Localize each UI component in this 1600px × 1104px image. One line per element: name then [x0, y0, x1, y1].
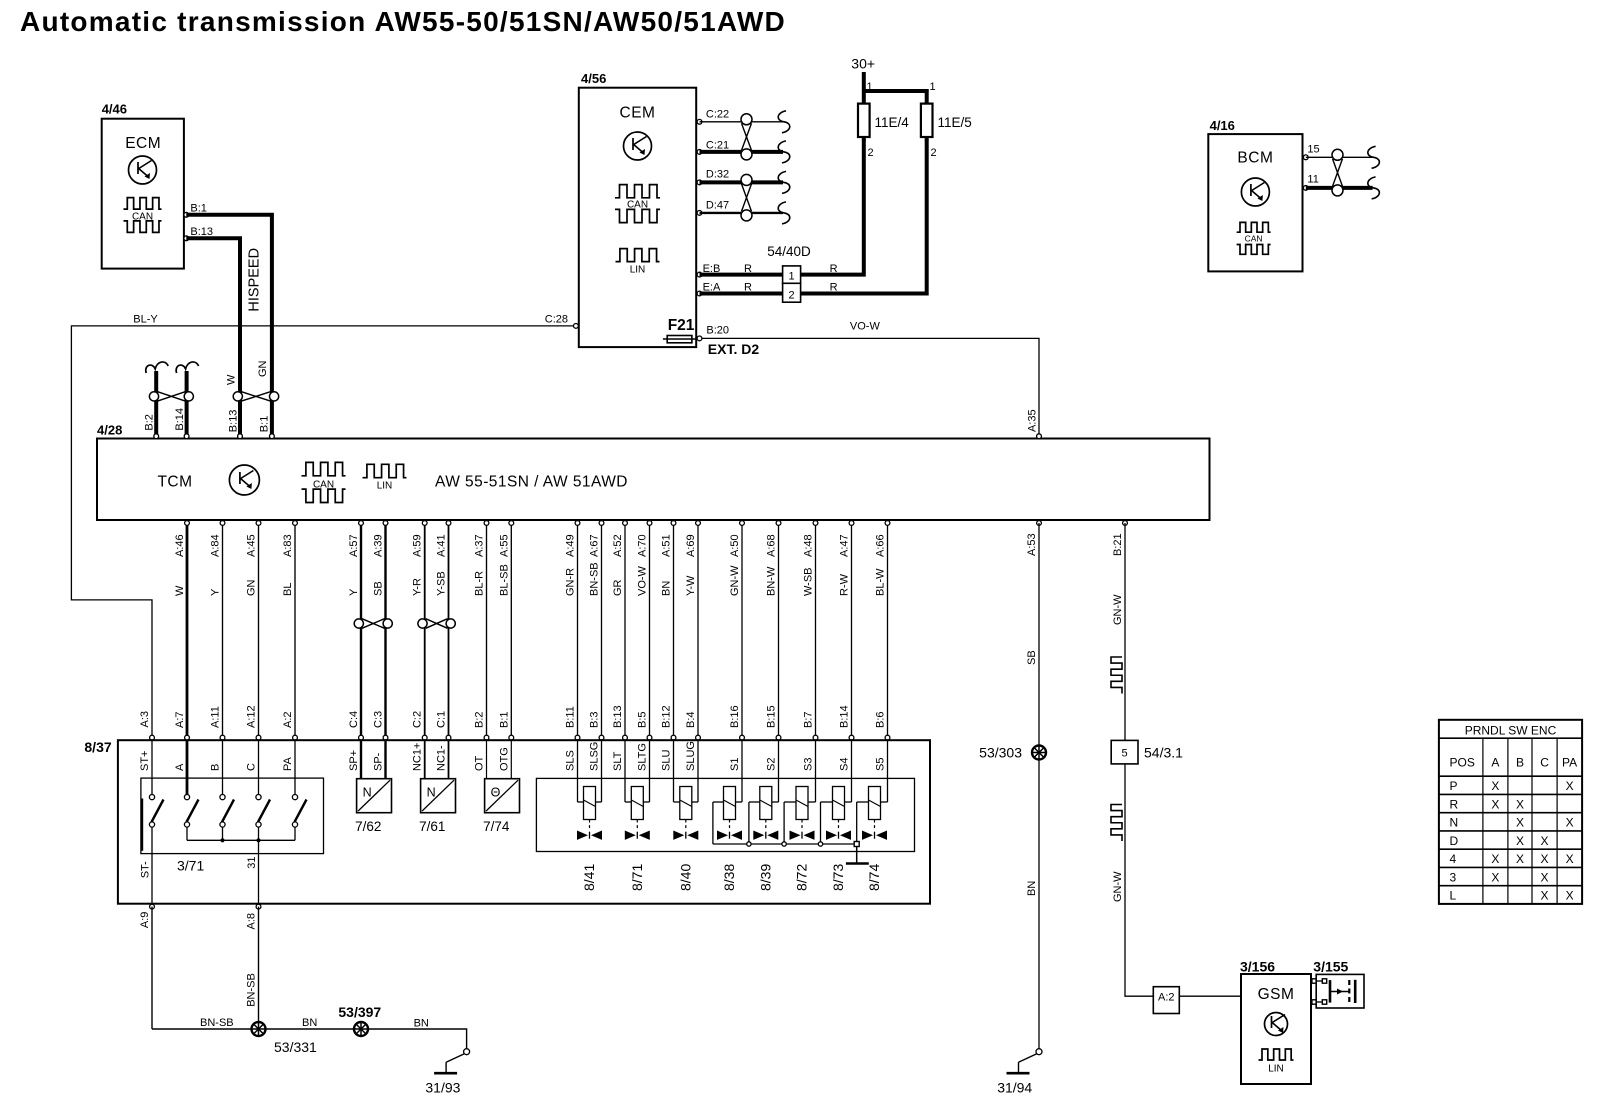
svg-text:54/40D: 54/40D [767, 244, 811, 259]
label GN-W [1112, 594, 1124, 625]
svg-text:8/38: 8/38 [721, 864, 737, 891]
speed sensor 7/62 [355, 779, 391, 834]
svg-text:8/71: 8/71 [629, 864, 645, 891]
svg-text:BL: BL [282, 583, 294, 596]
svg-text:C:1: C:1 [436, 711, 448, 728]
svg-text:W-SB: W-SB [803, 567, 815, 596]
svg-text:X: X [1541, 834, 1549, 848]
svg-text:53/331: 53/331 [274, 1039, 317, 1055]
wire GN-W TCM A:50 to 8/37 B:16 (S1) [729, 521, 744, 771]
svg-text:NC1-: NC1- [436, 745, 448, 771]
pin TCM B:13 [238, 434, 243, 439]
label BN [414, 1018, 429, 1030]
svg-text:N: N [1450, 816, 1459, 830]
wire Y-W TCM A:69 to 8/37 B:4 (SLUG) [685, 521, 700, 771]
svg-text:P: P [1450, 779, 1458, 793]
ground 31/93 [425, 1049, 469, 1096]
pin B:20 of CEM [697, 325, 729, 341]
label B:13 at TCM [228, 410, 240, 433]
wire SB TCM A:39 to 8/37 C:3 (SP-) [373, 521, 388, 771]
svg-text:30+: 30+ [851, 55, 875, 71]
svg-text:11E/4: 11E/4 [875, 115, 910, 130]
svg-text:B:6: B:6 [875, 711, 887, 728]
shift solenoid 8/73 [821, 740, 852, 891]
svg-text:X: X [1491, 852, 1499, 866]
svg-text:B:14: B:14 [174, 408, 186, 431]
svg-text:D:47: D:47 [706, 199, 729, 211]
svg-text:1: 1 [930, 81, 936, 93]
svg-text:SB: SB [1026, 650, 1038, 665]
svg-text:B:12: B:12 [661, 705, 673, 728]
wire BL-R TCM A:37 to 8/37 B:2 (OT) [474, 521, 489, 771]
svg-text:B:13: B:13 [190, 226, 213, 238]
PRNDL switch 3/71 [140, 740, 324, 906]
svg-text:4/46: 4/46 [102, 102, 127, 117]
svg-text:C: C [1540, 756, 1549, 770]
wire VO-W TCM A:70 to 8/37 B:5 (SLTG) [637, 521, 652, 771]
pin TCM A:35 [1037, 434, 1042, 439]
svg-text:POS: POS [1450, 756, 1475, 770]
svg-text:A:83: A:83 [282, 534, 294, 557]
solenoid block box [536, 778, 914, 851]
pin D:32 of CEM [697, 169, 729, 185]
svg-text:SB: SB [373, 581, 385, 596]
svg-text:LIN: LIN [1268, 1064, 1284, 1075]
oil temperature sensor 7/74 [483, 779, 519, 834]
wire OTG into 7/74 [510, 740, 512, 779]
svg-text:S4: S4 [839, 758, 851, 771]
svg-text:BN: BN [414, 1018, 429, 1030]
svg-text:GR: GR [612, 579, 624, 596]
svg-text:B:2: B:2 [474, 711, 486, 728]
svg-text:A:7: A:7 [174, 711, 186, 728]
svg-text:Y: Y [348, 588, 360, 596]
svg-text:A:55: A:55 [498, 534, 510, 557]
svg-text:8/73: 8/73 [830, 864, 846, 891]
label GN-W [1112, 871, 1124, 902]
wire GN-R TCM A:49 to 8/37 B:11 (SLS) [565, 521, 580, 771]
svg-text:SP-: SP- [373, 752, 385, 771]
svg-text:PA: PA [1562, 756, 1577, 770]
svg-text:A:12: A:12 [246, 705, 258, 728]
svg-text:A:70: A:70 [637, 534, 649, 557]
wire stub TCM B:14 [176, 362, 198, 436]
svg-text:B:5: B:5 [637, 711, 649, 728]
wire BN-W TCM A:68 to 8/37 B:15 (S2) [766, 521, 781, 771]
wire from CEM D:47 [700, 202, 790, 224]
twisted pair symbol D:32/D:47 [741, 174, 752, 221]
svg-text:11E/5: 11E/5 [938, 115, 972, 130]
PRNDL switch encoding table [1439, 720, 1582, 904]
connector A:2 [1153, 987, 1179, 1014]
pin B:13 of ECM [184, 226, 213, 241]
splice 53/397 [338, 1004, 381, 1036]
svg-text:S3: S3 [803, 758, 815, 771]
svg-text:Y-W: Y-W [685, 575, 697, 596]
svg-text:C: C [246, 763, 258, 771]
svg-text:X: X [1516, 852, 1524, 866]
wire NC1- into 7/61 [448, 740, 450, 779]
svg-text:X: X [1541, 852, 1549, 866]
title [20, 6, 786, 37]
label B:1 at TCM [259, 416, 271, 433]
svg-text:EXT. D2: EXT. D2 [708, 341, 760, 357]
wire from CEM C:22 [700, 111, 790, 133]
svg-text:8/37: 8/37 [84, 739, 111, 755]
svg-text:A:41: A:41 [436, 534, 448, 557]
pin B:1 of ECM [184, 203, 207, 218]
wire R CEM E:A to fuse 11E/5 [700, 137, 927, 294]
svg-text:2: 2 [789, 290, 795, 302]
svg-text:BN: BN [661, 581, 673, 596]
svg-text:B:13: B:13 [612, 705, 624, 728]
svg-text:NC1+: NC1+ [412, 743, 424, 771]
label BN-SB [200, 1017, 234, 1029]
svg-text:F21: F21 [668, 317, 695, 334]
label W [226, 374, 238, 385]
svg-text:ECM: ECM [125, 135, 161, 152]
svg-text:X: X [1516, 797, 1524, 811]
label EXT. D2 [708, 341, 760, 357]
wire BN-SB 8/37 A:8 down [246, 907, 259, 1029]
wire GN ECM B:1 to TCM B:1 (HISPEED) [186, 215, 272, 436]
pin C:22 of CEM [697, 109, 729, 125]
svg-text:8/40: 8/40 [677, 864, 693, 891]
svg-text:B:14: B:14 [839, 705, 851, 728]
svg-text:8/72: 8/72 [794, 864, 810, 891]
svg-text:L: L [1450, 889, 1457, 903]
pin TCM B:14 [184, 434, 189, 439]
wire BL TCM A:83 to 8/37 A:2 (PA) [282, 521, 297, 771]
svg-text:15: 15 [1307, 143, 1319, 155]
pin TCM B:1 [270, 434, 275, 439]
pin TCM B:21 [1112, 521, 1127, 556]
svg-text:A:46: A:46 [174, 534, 186, 557]
svg-text:Y-R: Y-R [412, 578, 424, 596]
fuse 11E/4 [858, 104, 909, 137]
wire GN TCM A:45 to 8/37 A:12 (C) [246, 521, 261, 771]
svg-text:8/39: 8/39 [757, 864, 773, 891]
svg-text:4: 4 [1450, 852, 1457, 866]
svg-text:1: 1 [867, 81, 873, 93]
svg-text:4/16: 4/16 [1210, 118, 1235, 133]
connector 54/3.1 [1111, 740, 1183, 764]
svg-text:S5: S5 [875, 758, 887, 771]
wire W-SB TCM A:48 to 8/37 B:7 (S3) [803, 521, 818, 771]
label BL-Y [133, 314, 158, 326]
svg-text:GN-W: GN-W [1112, 594, 1124, 625]
wire GN-W TCM B:21 to 54/3.1 with LIN marker [1111, 523, 1125, 740]
svg-text:X: X [1541, 889, 1549, 903]
ECM control module 4/46 [102, 119, 184, 269]
wire GN-W 54/3.1 to A:2 with LIN marker [1111, 764, 1153, 996]
wire Y-R TCM A:59 to 8/37 C:2 (NC1+) [412, 521, 427, 771]
svg-text:3/71: 3/71 [177, 858, 204, 874]
svg-text:SLSG: SLSG [589, 742, 601, 771]
shift solenoid 8/41 [577, 740, 602, 891]
svg-text:3: 3 [1450, 870, 1457, 884]
twisted pair symbol B:13/B:1 [233, 392, 279, 402]
shift solenoid 8/38 [713, 740, 742, 891]
label HISPEED [247, 248, 263, 312]
svg-text:53/303: 53/303 [979, 745, 1022, 761]
svg-text:A:59: A:59 [412, 534, 424, 557]
svg-text:A:2: A:2 [1158, 992, 1175, 1004]
svg-text:A:52: A:52 [612, 534, 624, 557]
svg-text:A:11: A:11 [210, 706, 222, 728]
ground 31/94 [997, 1049, 1042, 1096]
svg-text:GN-R: GN-R [565, 568, 577, 596]
label A:35 at TCM [1027, 409, 1039, 432]
svg-text:ST-: ST- [140, 861, 152, 878]
pin 11 of BCM [1303, 174, 1318, 191]
speed sensor 7/61 [419, 779, 455, 834]
pin 2 of fuse 11E/5 [925, 138, 937, 159]
svg-text:X: X [1516, 834, 1524, 848]
pin TCM B:2 [154, 434, 159, 439]
transmission assembly box 8/37 [118, 740, 930, 904]
svg-text:A: A [1491, 756, 1499, 770]
svg-text:A:68: A:68 [766, 534, 778, 557]
svg-text:B:1: B:1 [190, 203, 207, 215]
svg-text:4/28: 4/28 [97, 423, 122, 438]
label 4/56 [581, 71, 606, 86]
wire A:2 to GSM [1179, 995, 1241, 997]
wire BL-W TCM A:66 to 8/37 B:6 (S5) [875, 521, 890, 771]
pin C:21 of CEM [697, 140, 729, 155]
label 3/155 [1313, 959, 1348, 975]
svg-text:1: 1 [789, 271, 795, 283]
label B:14 at TCM [174, 408, 186, 431]
pin A:9 of 8/37 [139, 904, 154, 928]
svg-text:R: R [744, 263, 752, 275]
svg-text:A:49: A:49 [565, 534, 577, 557]
svg-text:X: X [1566, 816, 1574, 830]
wire Y TCM A:84 to 8/37 A:11 (B) [210, 521, 225, 771]
shift solenoid 8/74 [857, 740, 888, 891]
svg-text:TCM: TCM [157, 474, 192, 491]
svg-text:X: X [1491, 779, 1499, 793]
svg-text:31/93: 31/93 [425, 1079, 460, 1095]
svg-text:GN-W: GN-W [729, 565, 741, 596]
svg-text:54/3.1: 54/3.1 [1144, 745, 1183, 761]
svg-text:D: D [1450, 834, 1459, 848]
wire BN-SB 8/37 A:9 down [151, 907, 153, 1029]
splice 53/303 [979, 745, 1046, 761]
svg-text:A:50: A:50 [729, 534, 741, 557]
pin square GSM lower [1312, 1000, 1316, 1004]
svg-text:B:13: B:13 [228, 410, 240, 433]
svg-text:VO-W: VO-W [850, 321, 881, 333]
label BN [302, 1017, 317, 1029]
svg-text:SP+: SP+ [348, 750, 360, 771]
label R [744, 282, 752, 294]
wire from BCM pin 15 [1306, 146, 1380, 168]
svg-text:S1: S1 [729, 758, 741, 771]
svg-text:BN-SB: BN-SB [589, 562, 601, 596]
svg-text:N: N [427, 786, 436, 800]
pin 2 of fuse 11E/4 [862, 138, 874, 159]
svg-text:B:21: B:21 [1112, 533, 1124, 556]
svg-text:W: W [174, 585, 186, 596]
svg-text:3/155: 3/155 [1313, 959, 1348, 975]
svg-text:C:3: C:3 [373, 711, 385, 728]
wire OT into 7/74 [486, 740, 488, 779]
svg-text:N: N [363, 786, 372, 800]
svg-text:ST+: ST+ [139, 751, 151, 771]
svg-text:BL-SB: BL-SB [498, 564, 510, 596]
gear selector switch 3/155 [1316, 974, 1364, 1008]
svg-text:7/74: 7/74 [483, 819, 510, 834]
pin C:28 of CEM [545, 313, 579, 328]
fuse 11E/5 [921, 104, 972, 137]
svg-text:B:4: B:4 [685, 711, 697, 728]
svg-text:S2: S2 [766, 758, 778, 771]
wire BN TCM A:51 to 8/37 B:12 (SLU) [661, 521, 676, 771]
svg-text:GN-W: GN-W [1112, 871, 1124, 902]
svg-text:X: X [1566, 889, 1574, 903]
svg-text:C:2: C:2 [412, 711, 424, 728]
svg-text:SLTG: SLTG [637, 743, 649, 771]
svg-text:BN-SB: BN-SB [200, 1017, 234, 1029]
svg-text:SLUG: SLUG [685, 741, 697, 771]
svg-text:X: X [1516, 816, 1524, 830]
svg-text:X: X [1491, 870, 1499, 884]
label B:2 at TCM [144, 414, 156, 431]
svg-text:5: 5 [1122, 748, 1128, 760]
svg-text:GSM: GSM [1258, 986, 1295, 1003]
wire stub TCM B:2 [146, 362, 168, 436]
svg-text:C:4: C:4 [348, 711, 360, 728]
wire Y TCM A:57 to 8/37 C:4 (SP+) [348, 521, 363, 771]
pin TCM A:53 [1026, 521, 1041, 556]
svg-text:A:35: A:35 [1027, 409, 1039, 432]
svg-text:A:8: A:8 [246, 913, 258, 930]
wire from CEM D:32 [700, 171, 790, 193]
CEM control module 4/56 [579, 88, 696, 347]
label SB [1026, 650, 1038, 665]
label A:3 at 8/37 [139, 711, 154, 771]
svg-text:Y-SB: Y-SB [436, 571, 448, 596]
svg-text:SLU: SLU [661, 750, 673, 771]
wire from BCM pin 11 [1306, 177, 1380, 199]
label 3/156 [1240, 959, 1275, 975]
twisted pair symbol BCM 15/11 [1332, 149, 1343, 196]
svg-text:3/156: 3/156 [1240, 959, 1275, 975]
svg-text:A:84: A:84 [210, 534, 222, 557]
label R [744, 263, 752, 275]
svg-text:C:28: C:28 [545, 313, 568, 325]
svg-text:BL-R: BL-R [474, 571, 486, 596]
svg-text:LIN: LIN [630, 265, 646, 276]
svg-text:B:15: B:15 [766, 705, 778, 728]
label BN [1026, 881, 1038, 896]
twisted pair symbol SP+/SP- [354, 619, 392, 629]
svg-text:R: R [1450, 797, 1459, 811]
svg-text:A:48: A:48 [803, 534, 815, 557]
svg-text:B:16: B:16 [729, 705, 741, 728]
svg-text:X: X [1541, 870, 1549, 884]
wire NC1+ into 7/61 [424, 740, 426, 779]
svg-text:A:51: A:51 [661, 534, 673, 557]
svg-text:B:2: B:2 [144, 414, 156, 431]
wire from CEM C:21 [700, 141, 790, 163]
svg-text:Y: Y [210, 588, 222, 596]
svg-text:B:20: B:20 [706, 325, 729, 337]
svg-text:A:66: A:66 [875, 534, 887, 557]
svg-text:BN: BN [302, 1017, 317, 1029]
svg-text:B:11: B:11 [565, 706, 577, 728]
svg-text:R: R [744, 282, 752, 294]
svg-text:Automatic transmission AW55-50: Automatic transmission AW55-50/51SN/AW50… [20, 6, 786, 37]
svg-text:AW 55-51SN / AW 51AWD: AW 55-51SN / AW 51AWD [435, 474, 628, 491]
svg-text:BCM: BCM [1237, 150, 1273, 167]
svg-text:B: B [1516, 756, 1524, 770]
svg-text:CAN: CAN [1245, 233, 1263, 243]
label 4/28 [97, 423, 122, 438]
svg-text:A:47: A:47 [839, 534, 851, 557]
splice 53/331 [252, 1022, 318, 1055]
svg-text:B:1: B:1 [259, 416, 271, 433]
label GN [257, 360, 269, 377]
wire Y-SB TCM A:41 to 8/37 C:1 (NC1-) [436, 521, 451, 771]
svg-text:B:1: B:1 [498, 711, 510, 728]
svg-text:VO-W: VO-W [637, 565, 649, 596]
wire 30+ branch [864, 89, 929, 104]
label VO-W [850, 321, 881, 333]
shift solenoid 8/39 [749, 740, 779, 891]
svg-text:PA: PA [282, 756, 294, 771]
svg-text:D:32: D:32 [706, 169, 729, 181]
svg-text:LIN: LIN [377, 481, 393, 492]
svg-text:C:21: C:21 [706, 140, 729, 152]
twisted pair symbol B:2/B:14 [149, 392, 193, 402]
wire GR TCM A:52 to 8/37 B:13 (SLT) [612, 521, 627, 771]
label R [830, 263, 838, 275]
pin E:B of CEM [697, 263, 720, 277]
svg-text:53/397: 53/397 [338, 1004, 381, 1020]
pin E:A of CEM [697, 282, 721, 296]
svg-text:W: W [226, 374, 238, 385]
wire SB TCM A:53 to ground [1038, 523, 1040, 1049]
svg-text:A:69: A:69 [685, 534, 697, 557]
svg-text:A:37: A:37 [474, 534, 486, 557]
shift solenoid 8/40 [673, 740, 698, 891]
connector 54/40D [767, 244, 811, 302]
node 30+ supply [851, 55, 875, 103]
svg-text:SLS: SLS [565, 750, 577, 771]
svg-text:A:9: A:9 [139, 912, 151, 929]
svg-text:OTG: OTG [498, 747, 510, 771]
svg-text:A: A [174, 763, 186, 771]
pin 1 of fuse 11E/4 [867, 81, 873, 93]
svg-text:HISPEED: HISPEED [247, 248, 263, 312]
svg-text:BL-W: BL-W [875, 568, 887, 596]
svg-text:7/61: 7/61 [419, 819, 445, 834]
svg-text:B:3: B:3 [589, 711, 601, 728]
shift solenoid 8/71 [625, 740, 650, 891]
svg-text:2: 2 [868, 147, 874, 159]
wire SP+ into 7/62 [360, 740, 362, 779]
twisted pair symbol C:22/C:21 [741, 114, 752, 160]
svg-text:8/74: 8/74 [866, 864, 882, 891]
label 4/16 [1210, 118, 1235, 133]
wire W ECM B:13 to TCM B:13 (HISPEED) [186, 238, 240, 436]
svg-text:B: B [210, 764, 222, 771]
wire VO-W CEM B:20 to TCM A:35 [702, 338, 1039, 436]
wire R CEM E:B to fuse 11E/4 [700, 137, 864, 275]
wire R-W TCM A:47 to 8/37 B:14 (S4) [839, 521, 854, 771]
